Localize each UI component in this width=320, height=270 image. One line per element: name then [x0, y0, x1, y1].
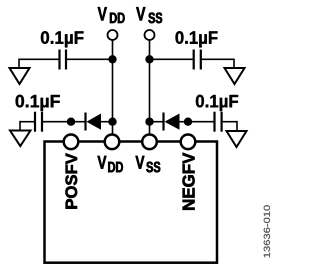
node VSS label	[136, 7, 162, 23]
ground top-left	[10, 68, 30, 84]
pin VSS	[142, 135, 157, 150]
wire C3 right	[43, 121, 71, 123]
wire ground drop row2-left	[19, 121, 21, 131]
capacitor C3 value 0.1uF	[16, 95, 60, 111]
wire C1 left	[19, 58, 59, 60]
wire C1 right	[67, 58, 113, 60]
pin NEGFV	[181, 135, 196, 150]
capacitor C3	[35, 112, 42, 132]
junction VDD row1	[108, 55, 116, 63]
junction POSFV	[67, 118, 75, 126]
wire ground drop top-left	[18, 59, 20, 69]
capacitor C4	[215, 112, 222, 132]
pin label NEGFV	[183, 153, 195, 210]
wire C2 right	[202, 58, 234, 60]
capacitor C2	[194, 50, 201, 70]
diode D2	[150, 113, 189, 131]
pin label VSS	[136, 156, 161, 172]
junction VDD row2	[108, 118, 116, 126]
pin VDD	[105, 135, 120, 150]
wire C3 left	[20, 121, 34, 123]
IC box U1	[45, 142, 218, 263]
junction VSS row1	[145, 55, 153, 63]
terminal VSS	[145, 30, 155, 40]
capacitor C2 value 0.1uF	[176, 31, 218, 47]
wire VSS vertical	[149, 40, 151, 134]
ground top-right	[225, 68, 245, 84]
node VDD label	[98, 7, 125, 23]
ground row2-right	[227, 131, 247, 147]
capacitor C4 value 0.1uF	[196, 95, 238, 111]
pin POSFV	[64, 135, 79, 150]
pin label POSFV	[66, 153, 78, 208]
junction NEGFV	[184, 118, 192, 126]
junction VSS row2	[145, 118, 153, 126]
wire C4 left	[188, 121, 214, 123]
terminal VDD	[108, 30, 118, 40]
ground row2-left	[10, 131, 31, 147]
wire C4 right	[223, 121, 237, 123]
pin label VDD	[98, 156, 123, 172]
wire C2 left	[150, 58, 193, 60]
capacitor C1	[60, 50, 67, 70]
wire ground drop top-right	[233, 59, 235, 69]
capacitor C1 value 0.1uF	[41, 31, 84, 47]
figure number 13636-010	[264, 205, 270, 257]
diode D1	[71, 113, 113, 131]
wire ground drop row2-right	[236, 121, 238, 131]
wire VDD vertical	[112, 40, 114, 134]
